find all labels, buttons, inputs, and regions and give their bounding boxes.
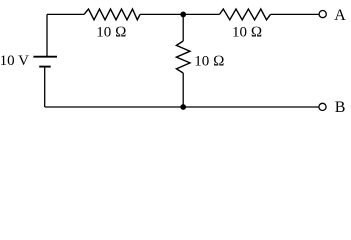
svg-text:10 V: 10 V	[0, 53, 29, 69]
resistor R2 10 ohm (top right zigzag)	[220, 9, 271, 20]
terminal A open circle	[319, 11, 326, 18]
node junction dot bottom	[180, 104, 186, 110]
node junction dot top	[180, 12, 186, 18]
svg-text:10 Ω: 10 Ω	[194, 53, 224, 69]
wire top middle	[140, 13, 220, 15]
terminal B open circle	[319, 103, 326, 110]
svg-text:10 Ω: 10 Ω	[232, 25, 262, 41]
svg-text:10 Ω: 10 Ω	[96, 24, 126, 40]
resistor R1 10 ohm (top left zigzag)	[84, 9, 140, 20]
wire middle vertical upper	[182, 14, 184, 41]
wire bottom horizontal	[45, 106, 319, 108]
wire middle vertical lower	[182, 73, 184, 107]
battery V1 short plate	[39, 66, 51, 68]
wire top right to terminal A	[271, 13, 320, 15]
wire left vertical (battery negative lead)	[44, 68, 46, 108]
wire top left horizontal	[47, 13, 84, 15]
battery V1 long plate	[33, 56, 57, 58]
svg-text:A: A	[334, 7, 346, 24]
wire left vertical (battery positive lead)	[46, 14, 48, 56]
resistor R3 10 ohm (middle vertical zigzag)	[176, 41, 190, 73]
svg-text:B: B	[335, 99, 346, 116]
